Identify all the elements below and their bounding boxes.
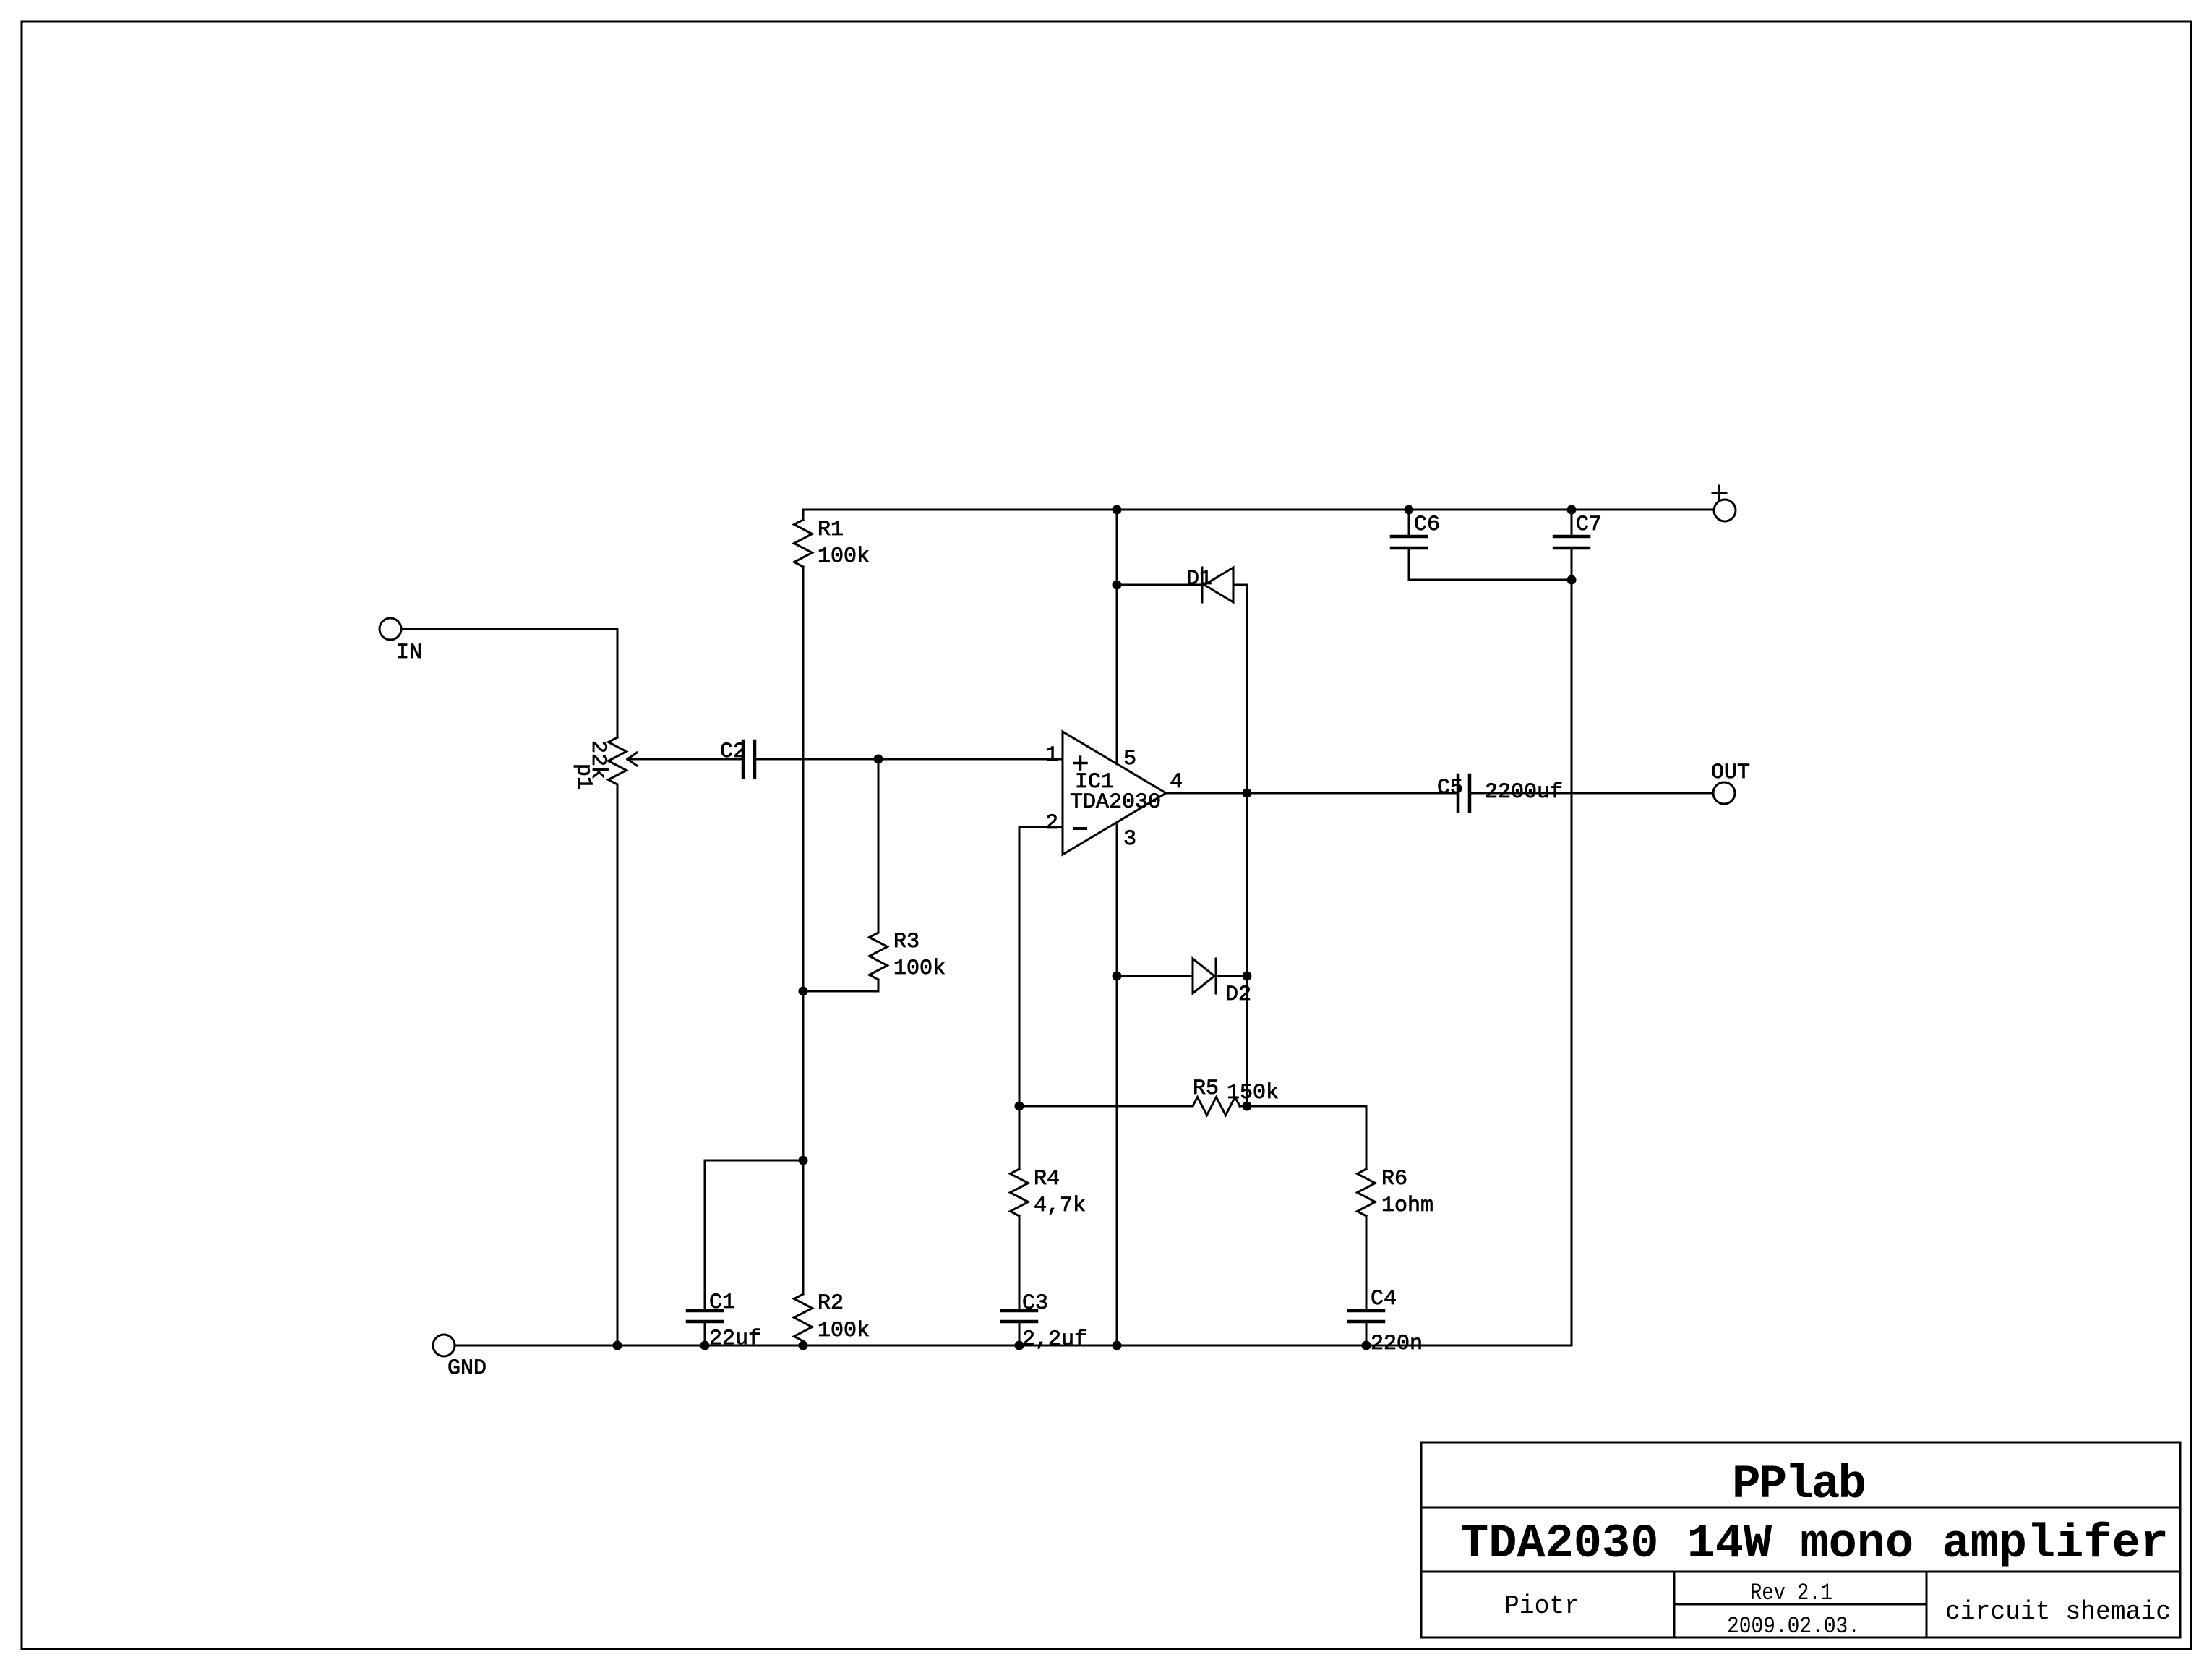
junction D2 cathode/output column: [1243, 972, 1252, 981]
wire pin 3 to ground rail: [1116, 823, 1118, 1345]
wire C6 top tail: [1408, 510, 1410, 535]
svg-text:R4: R4: [1034, 1167, 1060, 1191]
junction pin5/rail: [1113, 505, 1122, 515]
capacitor C5: [1457, 775, 1460, 811]
potentiometer P1: [609, 737, 627, 784]
wire D2 branch: [1117, 975, 1193, 977]
wire C1 bottom to ground rail: [704, 1323, 706, 1345]
wire R1 top tail from rail: [802, 510, 805, 520]
svg-text:C4: C4: [1371, 1287, 1397, 1311]
wire D1 to output column: [1233, 584, 1247, 586]
junction C1 branch/divider line: [799, 1156, 808, 1165]
wire C4 bottom to ground rail: [1366, 1323, 1368, 1345]
wire R5 right segment to R6: [1240, 1106, 1366, 1169]
wire P1 bottom to ground rail: [617, 784, 619, 1345]
terminal IN: [380, 618, 401, 640]
svg-text:5: 5: [1123, 747, 1136, 771]
wire C1 branch from divider line: [705, 1160, 803, 1308]
wire pin 5 to supply rail: [1116, 510, 1118, 764]
junction pin3/ground rail: [1113, 1341, 1122, 1350]
junction C7/rail: [1567, 505, 1577, 515]
diode D1 cathode bar: [1201, 568, 1204, 602]
svg-text:2009.02.03.: 2009.02.03.: [1727, 1613, 1860, 1640]
svg-text:100k: 100k: [818, 1319, 870, 1343]
svg-text:R1: R1: [818, 518, 844, 542]
capacitor C3: [1002, 1309, 1037, 1313]
wire C3 bottom to ground rail: [1019, 1323, 1021, 1345]
resistor R1: [794, 520, 813, 567]
svg-text:2200uf: 2200uf: [1485, 780, 1563, 805]
junction R3/divider line: [799, 987, 808, 996]
svg-text:OUT: OUT: [1711, 761, 1750, 785]
wire R4 bottom to C3: [1019, 1216, 1021, 1308]
diode D2: [1193, 959, 1214, 993]
svg-text:R6: R6: [1381, 1167, 1407, 1191]
wire op-amp output pin 4: [1166, 792, 1458, 795]
junction C3/ground rail: [1015, 1341, 1024, 1350]
svg-text:2,2uf: 2,2uf: [1022, 1327, 1087, 1352]
junction P1/ground rail: [613, 1341, 622, 1350]
wire D1 anode branch: [1117, 584, 1202, 586]
svg-text:Piotr: Piotr: [1504, 1591, 1579, 1621]
plus sign of supply terminal: [1718, 486, 1720, 500]
svg-text:C1: C1: [709, 1290, 735, 1315]
svg-text:1ohm: 1ohm: [1381, 1194, 1433, 1218]
junction C6/rail: [1405, 505, 1414, 515]
junction output/diode column: [1243, 789, 1252, 798]
junction C6 bottom/C7 column: [1567, 575, 1577, 585]
wire node A down to R3: [878, 759, 880, 933]
junction C1/ground rail: [700, 1341, 710, 1350]
wire R5 left segment: [1019, 1105, 1193, 1108]
wire ground rail: [455, 1345, 1572, 1347]
resistor R3: [870, 933, 888, 980]
diode D1: [1204, 568, 1233, 602]
resistor R4: [1011, 1169, 1029, 1216]
wire IN to potentiometer column: [401, 629, 617, 737]
svg-text:IN: IN: [396, 641, 422, 665]
capacitor C1: [687, 1309, 722, 1313]
op-amp U1 triangle: [1063, 732, 1166, 855]
svg-text:22uf: 22uf: [709, 1327, 761, 1351]
wire D2 cathode to output column: [1216, 975, 1247, 977]
svg-text:100k: 100k: [893, 956, 946, 981]
op-amp minus input sign: [1074, 827, 1086, 830]
svg-text:D1: D1: [1186, 567, 1212, 591]
svg-text:TDA2030: TDA2030: [1070, 790, 1161, 815]
diode D2 cathode bar: [1215, 959, 1217, 993]
wire R2 bottom tail to ground rail: [802, 1341, 805, 1345]
terminal GND: [433, 1335, 455, 1356]
junction R2/ground rail: [799, 1341, 808, 1350]
wiper arrowhead: [627, 753, 637, 766]
junction D1 branch: [1113, 581, 1122, 590]
svg-text:C5: C5: [1437, 776, 1463, 800]
junction C4/ground rail: [1362, 1341, 1371, 1350]
capacitor C2: [742, 741, 745, 777]
svg-text:2: 2: [1045, 811, 1058, 836]
svg-text:p1: p1: [571, 763, 596, 789]
svg-text:C7: C7: [1576, 513, 1602, 537]
capacitor C6: [1392, 535, 1426, 539]
svg-text:100k: 100k: [818, 544, 870, 569]
wire C6 bottom to C7 column: [1409, 549, 1572, 580]
svg-text:3: 3: [1123, 827, 1136, 852]
svg-text:4,7k: 4,7k: [1034, 1194, 1086, 1218]
svg-text:TDA2030 14W mono amplifer: TDA2030 14W mono amplifer: [1460, 1517, 2169, 1571]
resistor R6: [1358, 1169, 1376, 1216]
wire C7 top tail: [1571, 510, 1573, 535]
wire op-amp pin 2 to feedback column: [1019, 827, 1063, 1169]
svg-text:Rev 2.1: Rev 2.1: [1750, 1580, 1832, 1606]
junction R5/feedback column: [1015, 1102, 1024, 1111]
svg-text:PPlab: PPlab: [1732, 1457, 1866, 1512]
svg-text:C6: C6: [1414, 513, 1440, 537]
svg-text:R5: R5: [1193, 1076, 1219, 1101]
svg-text:C3: C3: [1022, 1291, 1048, 1316]
svg-text:C2: C2: [720, 740, 746, 764]
wire P1 wiper to C2: [627, 758, 743, 761]
terminal plus supply: [1714, 500, 1736, 521]
svg-text:circuit shemaic: circuit shemaic: [1945, 1597, 2171, 1627]
resistor R5: [1193, 1097, 1240, 1116]
junction dots: [613, 505, 1577, 1350]
wire C5 to OUT terminal: [1471, 792, 1713, 795]
wire R1 bottom to R2 top (left bias divider line): [802, 567, 805, 1294]
svg-text:220n: 220n: [1371, 1332, 1423, 1356]
svg-text:R3: R3: [893, 930, 919, 954]
wire output column vertical: [1246, 585, 1248, 1106]
junction D2 branch on pin3 line: [1113, 972, 1122, 981]
svg-text:D2: D2: [1225, 982, 1251, 1007]
wire top supply rail: [803, 509, 1714, 511]
capacitor C4: [1349, 1309, 1384, 1313]
title block frame: [1421, 1442, 2180, 1637]
terminal OUT: [1713, 782, 1735, 804]
svg-text:1: 1: [1045, 743, 1058, 768]
wire node A to op-amp pin 1: [878, 758, 1063, 761]
resistor R2: [794, 1294, 813, 1341]
capacitor C7: [1554, 535, 1589, 539]
svg-text:150k: 150k: [1227, 1081, 1279, 1105]
wire C2 to node A junction: [756, 758, 878, 761]
op-amp plus input sign: [1079, 757, 1082, 769]
wire C7 bottom down to ground rail corner: [1571, 549, 1573, 1345]
node A junction C2/R3: [874, 755, 883, 764]
junction R5/output column: [1243, 1102, 1252, 1111]
svg-text:R2: R2: [818, 1291, 844, 1316]
svg-text:GND: GND: [447, 1356, 486, 1381]
wire R6 bottom to C4: [1366, 1216, 1368, 1308]
wire R3 bottom to divider line: [803, 980, 878, 991]
svg-text:4: 4: [1170, 770, 1183, 795]
